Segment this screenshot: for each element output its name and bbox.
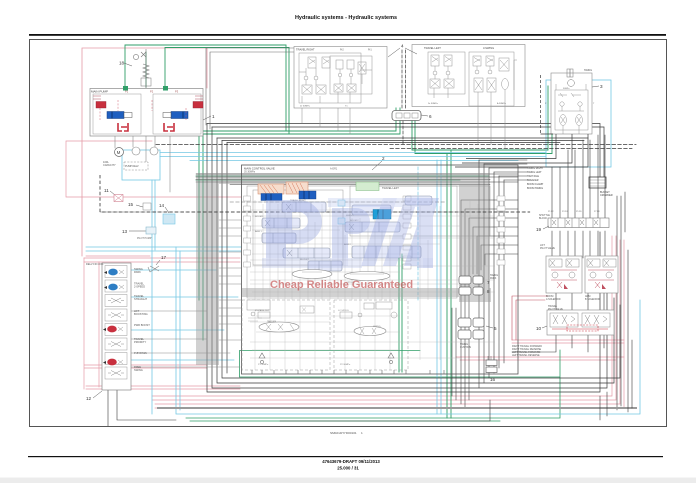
svg-text:P2: P2 <box>150 90 154 94</box>
bottom check valves <box>259 353 394 364</box>
wire black dashed pilot line second <box>390 148 632 150</box>
svg-text:15: 15 <box>128 202 134 207</box>
svg-text:SWING LEFT: SWING LEFT <box>527 171 542 174</box>
small valve glyphs <box>108 298 124 376</box>
red pilot dashes inside pump <box>100 100 186 120</box>
wire black right risers to lower blocks <box>617 192 625 410</box>
svg-text:A 30MPa: A 30MPa <box>497 102 507 105</box>
shuttle block 19 <box>536 211 609 232</box>
blue solenoid b <box>108 284 118 291</box>
wire pink long horizontal upper <box>66 141 241 197</box>
wire cyan upper horizontals into block 3 box <box>160 153 546 161</box>
svg-text:STRAIGHT: STRAIGHT <box>134 297 148 301</box>
svg-text:BY-PASS CUT: BY-PASS CUT <box>255 309 270 312</box>
svg-text:PRIORITY: PRIORITY <box>134 340 147 344</box>
svg-text:Hydraulic systems - Hydraulic: Hydraulic systems - Hydraulic systems <box>295 15 397 21</box>
svg-text:PARK: PARK <box>134 270 141 274</box>
gray highlight bands <box>196 173 491 365</box>
travel pilot valve 10 <box>512 305 614 357</box>
wire gray pump drops to block11 <box>115 136 170 192</box>
svg-text:12: 12 <box>86 396 92 401</box>
svg-text:BLOCK: BLOCK <box>539 217 548 220</box>
svg-text:P1 P2: P1 P2 <box>548 211 554 213</box>
pump right sub box <box>153 94 201 134</box>
regulator valve right red <box>193 102 203 109</box>
filter symbol pink cross <box>114 195 123 202</box>
svg-text:PILOT VALVE: PILOT VALVE <box>548 308 563 311</box>
wire cyan pump delv box <box>122 150 160 180</box>
band horizontal lower <box>242 288 459 297</box>
small comp lower-left <box>247 300 270 310</box>
pilot control manifold 12 <box>86 255 167 401</box>
svg-text:CUSHION: CUSHION <box>460 346 471 349</box>
boom solenoid group <box>540 244 582 301</box>
wire black dashed verticals near green drop <box>402 50 406 145</box>
svg-text:35 30MPa: 35 30MPa <box>244 171 256 174</box>
svg-text:25.000 / 31: 25.000 / 31 <box>337 466 359 471</box>
wire black nested corners in right band <box>452 200 518 408</box>
tiny text texture rows <box>255 199 381 366</box>
red solenoid a <box>107 326 117 333</box>
block 11 dashed box <box>100 175 530 212</box>
svg-text:PUMP DELV: PUMP DELV <box>125 165 139 168</box>
bottom screenshot strip <box>0 478 696 483</box>
pump delv press dashed box <box>124 162 148 170</box>
wire black right side risers from bottom <box>600 250 632 420</box>
svg-text:PILOT VALVE: PILOT VALVE <box>540 247 555 250</box>
svg-text:P2 30MPa: P2 30MPa <box>340 364 351 366</box>
svg-text:LEFT TRAVEL REVERSE: LEFT TRAVEL REVERSE <box>512 354 540 357</box>
watermark logo blue <box>262 198 439 268</box>
wire black pilot column bottom drops <box>108 390 176 426</box>
wire gray pilot column label leads <box>131 311 240 367</box>
wire pink bottom long bundle turning up right side <box>152 236 624 408</box>
right side signal label text block <box>527 167 613 197</box>
svg-text:A SOLENOID: A SOLENOID <box>546 298 561 301</box>
port tab column middle <box>403 196 411 269</box>
wire black block19 feeders <box>552 135 605 219</box>
valve 17 <box>148 266 159 272</box>
servo piston right blue <box>171 112 188 119</box>
bottom port ticks <box>252 370 444 374</box>
spool L2 <box>262 218 300 228</box>
wire black band horizontals <box>196 174 518 185</box>
outer drawing frame <box>30 40 667 427</box>
svg-text:BOOM SWING: BOOM SWING <box>527 187 543 190</box>
spool R3 wide <box>352 246 421 258</box>
svg-text:BOOM 1: BOOM 1 <box>255 216 264 218</box>
svg-text:SWING: SWING <box>373 326 381 328</box>
svg-text:16: 16 <box>490 377 496 382</box>
wire green top bundle from pump over and down <box>125 45 289 134</box>
wire black bottom inner row <box>280 400 490 421</box>
wire pink pump boundary box <box>82 48 207 256</box>
svg-text:1: 1 <box>212 114 215 119</box>
svg-text:1: 1 <box>361 431 363 435</box>
svg-text:P3: P3 <box>175 90 179 94</box>
top right spool <box>405 196 432 205</box>
center relief chain <box>141 49 146 88</box>
wire cyan left vertical pair down to bottom bundle <box>176 247 640 414</box>
internal line texture vertical <box>255 200 478 370</box>
svg-text:CROWDER: CROWDER <box>600 194 613 197</box>
wire pink right rows to solenoid blocks <box>456 340 624 360</box>
svg-text:7: 7 <box>487 280 490 285</box>
svg-text:ARM 1: ARM 1 <box>255 230 262 233</box>
wire pink left lower pairs <box>84 258 240 389</box>
cyan connector boxes <box>338 200 345 206</box>
svg-text:Cheap Reliable Guaranteed: Cheap Reliable Guaranteed <box>270 279 413 291</box>
wire cyan middle verticals <box>437 160 441 414</box>
wire black dashed pilot line long <box>156 144 636 146</box>
band vertical right <box>459 184 489 302</box>
svg-text:DELV FR COIL: DELV FR COIL <box>86 262 104 266</box>
boom spool blue piston 0 <box>261 194 282 201</box>
svg-text:TRAVEL LEFT: TRAVEL LEFT <box>382 186 399 190</box>
connectors 7 8 <box>459 274 498 295</box>
svg-text:PWR BOOST: PWR BOOST <box>134 323 150 327</box>
svg-text:LC SPOOL: LC SPOOL <box>338 310 350 312</box>
wire black left of main block bundle wrapping bottom <box>207 124 620 393</box>
svg-text:2-SPEED: 2-SPEED <box>134 285 145 289</box>
header rule <box>29 34 666 36</box>
wire black right vertical bundle from labels <box>479 160 504 388</box>
wire black valve groups to block10 <box>556 292 604 310</box>
wire pink left mid pair <box>84 256 240 262</box>
svg-text:4: 4 <box>401 44 404 49</box>
svg-text:HIGH IDLE: HIGH IDLE <box>527 175 539 178</box>
svg-text:2: 2 <box>382 156 385 161</box>
wire gray travel block port drops <box>302 103 505 148</box>
svg-text:3-SWING: 3-SWING <box>483 46 494 50</box>
band horizontal top of main valve <box>196 173 489 184</box>
svg-text:TRAVEL RIGHT: TRAVEL RIGHT <box>296 48 315 52</box>
spool L4 <box>283 248 330 258</box>
svg-text:BOOSTING: BOOSTING <box>134 312 148 316</box>
svg-text:30MPa: 30MPa <box>563 88 570 90</box>
solenoid 13 symbol <box>146 227 156 234</box>
svg-text:PILOT PUMP: PILOT PUMP <box>137 237 152 240</box>
lines from block3 down-left <box>455 134 588 167</box>
svg-text:P7 P8: P7 P8 <box>594 211 600 213</box>
blue piston 1 <box>299 191 316 199</box>
svg-text:47643679-DRAFT 09/11/2013: 47643679-DRAFT 09/11/2013 <box>322 459 380 464</box>
svg-text:Dr 30MPa: Dr 30MPa <box>428 102 439 105</box>
svg-text:6: 6 <box>429 114 432 119</box>
main control valve 2 <box>242 156 519 374</box>
relief 15 symbol <box>143 203 151 210</box>
side labels <box>134 267 150 372</box>
svg-text:5: 5 <box>494 326 497 331</box>
wire black pump to travel block <box>206 48 294 129</box>
svg-text:A-DR1: A-DR1 <box>330 168 338 171</box>
main pump assembly 1 <box>90 49 215 170</box>
wire green verticals through connector 6 <box>396 86 552 418</box>
footer rule <box>28 456 663 457</box>
red dashed highlight <box>567 325 598 331</box>
svg-text:P3 P4: P3 P4 <box>562 211 568 213</box>
spool L3 <box>262 233 296 243</box>
svg-text:BOOM CLAMP: BOOM CLAMP <box>527 183 544 186</box>
svg-text:17: 17 <box>161 255 167 260</box>
svg-text:8: 8 <box>487 289 490 294</box>
terminal box top right <box>589 177 606 188</box>
svg-text:TANDEM: TANDEM <box>267 320 276 323</box>
relief group orange 2 <box>286 182 308 194</box>
blue solenoid a <box>108 269 118 276</box>
connector 6 <box>392 111 432 121</box>
svg-text:B SOLENOID: B SOLENOID <box>585 298 600 301</box>
servo piston left blue <box>107 112 124 119</box>
accumulator 14 cyan box <box>163 214 175 224</box>
svg-text:13: 13 <box>122 229 128 234</box>
port tab column right <box>497 196 505 265</box>
wire black block10 down to bottom bundle <box>512 335 604 352</box>
wire green band horizontals <box>196 176 489 180</box>
lower oval manifold left <box>259 322 299 332</box>
wire gray ladder stubs into main block <box>219 220 241 340</box>
spool M1 <box>308 261 342 271</box>
pump outer box <box>90 89 203 137</box>
wire black dashed mid <box>100 202 530 212</box>
wire black top long horizontals wrap <box>207 124 604 178</box>
wire green long horizontals to connector and left corners <box>199 121 400 341</box>
small comp lower-right <box>376 302 392 309</box>
wire red right solenoid feeders <box>512 296 548 340</box>
internal line texture horizontal <box>250 202 495 358</box>
svg-text:M: M <box>117 150 121 155</box>
pilot valves stack <box>105 266 127 380</box>
green port squares <box>123 86 128 91</box>
relief group orange 1 <box>258 184 284 194</box>
band lower right patch <box>459 288 491 302</box>
svg-text:PARK: PARK <box>490 277 497 280</box>
long wire routes <box>66 45 640 426</box>
swash plate right red brackets <box>164 123 174 131</box>
svg-text:MAIN PUMP: MAIN PUMP <box>91 90 108 94</box>
wire green bottom horizontals <box>186 350 560 421</box>
svg-text:Pr2: Pr2 <box>340 49 344 52</box>
connector 16 <box>486 356 497 382</box>
wire cyan from pilot column <box>131 270 238 360</box>
spool R2 <box>345 222 400 232</box>
svg-text:Dr 30MPa: Dr 30MPa <box>300 105 311 108</box>
spool L1 <box>282 202 326 212</box>
spool R1 with cyan piston <box>352 205 391 215</box>
svg-text:SWING RIGHT: SWING RIGHT <box>527 167 544 170</box>
svg-text:BREAKER: BREAKER <box>527 179 539 182</box>
wire black block19 to valve groups <box>552 231 605 258</box>
svg-text:SWING: SWING <box>584 69 592 72</box>
red solenoid b <box>107 359 117 366</box>
svg-text:P5 P6: P5 P6 <box>576 211 582 213</box>
svg-text:14: 14 <box>159 203 165 208</box>
svg-text:Pr1: Pr1 <box>368 49 372 52</box>
svg-text:3: 3 <box>600 84 603 89</box>
svg-text:SWING: SWING <box>134 368 143 372</box>
svg-text:10: 10 <box>536 326 542 331</box>
svg-text:18: 18 <box>119 61 125 66</box>
svg-text:TRAVEL LEFT: TRAVEL LEFT <box>424 46 441 50</box>
block 11 pilot filter area <box>100 175 530 240</box>
wire cyan dashed vertical at main block right <box>417 167 419 300</box>
lower oval manifold right <box>354 327 386 336</box>
solenoid manifold 3 <box>455 69 603 167</box>
svg-text:11: 11 <box>104 188 109 193</box>
svg-text:SM0214HYD00101: SM0214HYD00101 <box>330 431 357 435</box>
swash plate left red brackets <box>118 123 128 131</box>
travel pilot block right 4 <box>294 47 387 109</box>
connectors 5 <box>458 318 497 349</box>
gear pump motor M <box>115 148 124 157</box>
wire gray tank return thick <box>158 407 636 409</box>
travel-left highlighted valve green <box>356 182 379 191</box>
svg-text:P1 30MPa: P1 30MPa <box>258 364 269 366</box>
svg-text:19: 19 <box>536 227 542 232</box>
arm solenoid group <box>585 256 618 301</box>
pump left sub box <box>93 94 141 134</box>
bottom label texts <box>512 345 542 357</box>
inner sub boxes <box>242 186 490 370</box>
wire black label stubs to right text <box>479 160 527 180</box>
band vertical left <box>196 184 219 365</box>
wire cyan left mid horizontals <box>86 247 241 251</box>
travel pilot block left and swing 4 <box>388 44 525 107</box>
oval spools row <box>292 270 332 279</box>
svg-text:CAPACITY: CAPACITY <box>103 163 116 167</box>
port tab column left <box>244 196 251 267</box>
svg-text:P-BYPASS: P-BYPASS <box>134 351 147 355</box>
wire cyan box around block 3 <box>546 80 611 167</box>
regulator valve left red <box>96 102 106 109</box>
